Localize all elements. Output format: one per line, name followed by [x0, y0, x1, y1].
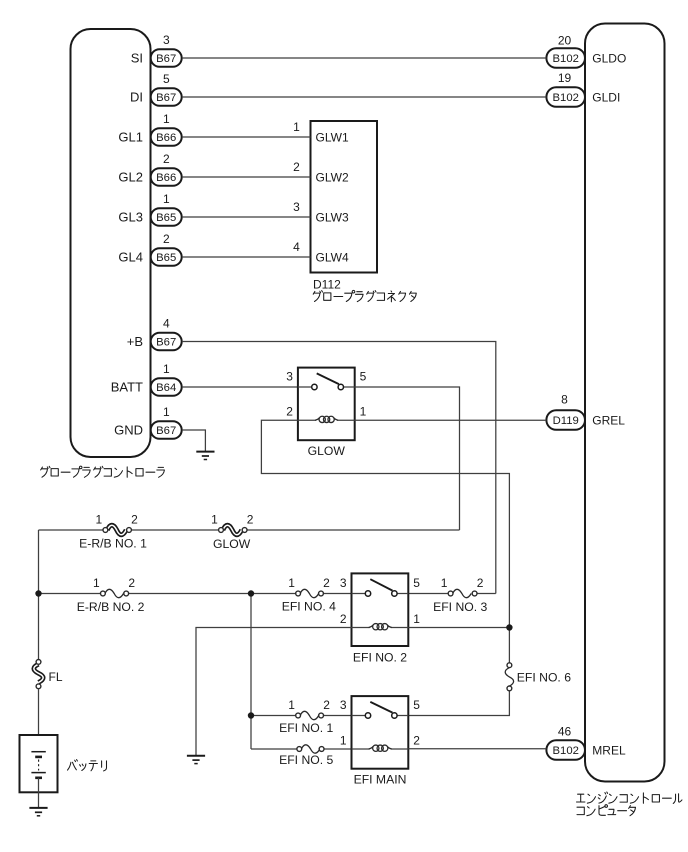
- pin label GND: [114, 422, 143, 437]
- relay EFI NO. 2 coil: [352, 624, 409, 630]
- relay EFI NO. 2 switch contacts: [352, 579, 409, 596]
- wire GL1 to D112: [182, 136, 311, 138]
- net label GLDO: [592, 51, 626, 65]
- svg-text:5: 5: [413, 698, 420, 712]
- pin label GL3: [118, 209, 143, 224]
- pin number 20 of GLDO: [558, 34, 572, 48]
- svg-text:GL2: GL2: [118, 169, 143, 184]
- fuse EFI NO.6 value label: [517, 670, 571, 684]
- svg-text:FL: FL: [49, 670, 63, 684]
- svg-text:B67: B67: [156, 425, 176, 437]
- fuse EFI NO. 5: [297, 745, 324, 753]
- wire battery feed vertical (x=38.5): [38, 530, 40, 660]
- pin label GL4: [118, 249, 143, 264]
- svg-text:B102: B102: [553, 745, 579, 757]
- pin number 46 of MREL: [558, 725, 572, 739]
- pin number 2 of D112: [293, 160, 300, 174]
- terminal oval B67 (+B): [151, 333, 182, 351]
- svg-text:MREL: MREL: [592, 743, 626, 757]
- pin number 1 of BATT: [163, 362, 170, 376]
- relay EFI NO. 2 pin 2: [340, 612, 347, 626]
- svg-text:1: 1: [163, 405, 170, 419]
- svg-text:1: 1: [211, 513, 218, 527]
- fuse E-R/B NO. 2: [101, 589, 129, 597]
- svg-text:2: 2: [323, 698, 330, 712]
- svg-text:1: 1: [93, 576, 100, 590]
- pin label +B: [127, 334, 143, 349]
- pin number 1 of GND: [163, 405, 170, 419]
- wire battery negative to ground: [38, 778, 40, 808]
- relay EFI MAIN coil: [352, 745, 409, 751]
- svg-text:1: 1: [441, 576, 448, 590]
- wire FL to battery: [38, 689, 40, 752]
- connector: glow plug controller body: [71, 29, 151, 457]
- svg-text:2: 2: [477, 576, 484, 590]
- svg-text:EFI NO. 2: EFI NO. 2: [353, 651, 407, 665]
- relay EFI NO. 2 pin 1: [413, 612, 420, 626]
- svg-text:2: 2: [340, 612, 347, 626]
- relay EFI MAIN pin 1: [340, 734, 347, 748]
- svg-text:GL4: GL4: [118, 249, 143, 264]
- svg-text:DI: DI: [130, 89, 143, 104]
- svg-text:B66: B66: [156, 132, 176, 144]
- svg-text:2: 2: [323, 576, 330, 590]
- svg-text:1: 1: [293, 120, 300, 134]
- svg-text:2: 2: [131, 513, 138, 527]
- fuse EFI NO. 4 pin 2: [323, 576, 330, 590]
- net label MREL: [592, 743, 626, 757]
- svg-text:B65: B65: [156, 212, 176, 224]
- svg-text:EFI MAIN: EFI MAIN: [354, 773, 407, 787]
- svg-text:20: 20: [558, 34, 572, 48]
- svg-text:D119: D119: [553, 415, 579, 427]
- svg-text:E-R/B NO. 1: E-R/B NO. 1: [79, 537, 147, 551]
- fuse E-R/B NO. 1 pin 2: [131, 513, 138, 527]
- pin number 1 of GL3: [163, 192, 170, 206]
- terminal oval B64 (BATT): [151, 378, 182, 396]
- wire GLOW relay pin 1 (coil) to GREL D119: [355, 419, 547, 421]
- fuse E-R/B NO. 2 value label: [77, 600, 145, 614]
- fuse EFI NO. 4: [296, 589, 324, 597]
- fuse EFI NO. 1 pin 1: [288, 698, 295, 712]
- wire E-R/B NO.2 / EFI NO.4 row to EFI NO.2 relay pin 3: [39, 593, 352, 595]
- svg-text:BATT: BATT: [111, 379, 143, 394]
- svg-text:1: 1: [340, 734, 347, 748]
- svg-text:3: 3: [293, 200, 300, 214]
- terminal oval B102 (MREL): [546, 740, 585, 760]
- relay EFI NO. 2 pin 3: [340, 576, 347, 590]
- terminal oval B102 (GLDO): [546, 48, 585, 68]
- net label GLDI: [592, 90, 620, 104]
- svg-text:5: 5: [163, 72, 170, 86]
- svg-text:2: 2: [413, 734, 420, 748]
- svg-text:GLOW: GLOW: [308, 444, 346, 458]
- svg-text:2: 2: [163, 232, 170, 246]
- svg-text:EFI NO. 1: EFI NO. 1: [279, 721, 333, 735]
- pin number 19 of GLDI: [558, 71, 572, 85]
- ground G1 (controller GND): [196, 452, 214, 460]
- relay GLOW coil: [298, 416, 355, 422]
- pin number 3 of D112: [293, 200, 300, 214]
- svg-text:1: 1: [288, 698, 295, 712]
- wire EFI NO.2 relay pin 5 through EFI NO.3 to +B feed: [408, 593, 496, 595]
- pin label GL2: [118, 169, 143, 184]
- pin number 2 of GL2: [163, 152, 170, 166]
- svg-text:46: 46: [558, 725, 572, 739]
- svg-text:GLW2: GLW2: [316, 171, 349, 185]
- svg-text:2: 2: [163, 152, 170, 166]
- fuse EFI NO. 1 value label: [279, 721, 333, 735]
- pin number 1 of D112: [293, 120, 300, 134]
- wire BATT to GLOW relay pin 3: [182, 386, 298, 388]
- svg-text:1: 1: [288, 576, 295, 590]
- fuse EFI NO. 1 pin 2: [323, 698, 330, 712]
- wire SI to GLDO: [182, 57, 546, 59]
- wire GLOW relay pin 2 (coil) to EFI NO.6 branch: [261, 420, 509, 663]
- wire GL4 to D112: [182, 256, 311, 258]
- fuse E-R/B NO. 2 pin 1: [93, 576, 100, 590]
- svg-text:B66: B66: [156, 172, 176, 184]
- svg-text:2: 2: [247, 513, 254, 527]
- svg-text:8: 8: [561, 393, 568, 407]
- fuse EFI NO. 4 pin 1: [288, 576, 295, 590]
- svg-text:GLW3: GLW3: [316, 211, 349, 225]
- relay GLOW pin 3: [286, 370, 293, 384]
- svg-text:B67: B67: [156, 53, 176, 65]
- wire GL3 to D112: [182, 216, 311, 218]
- svg-text:EFI NO. 5: EFI NO. 5: [279, 753, 333, 767]
- relay EFI MAIN box: [352, 696, 409, 769]
- fuse GLOW value label: [213, 537, 251, 551]
- pin number 4 of D112: [293, 240, 300, 254]
- junction J1 battery feed/E-R/B NO.2: [35, 590, 41, 596]
- fuse EFI NO. 3: [448, 589, 477, 597]
- svg-text:B102: B102: [553, 53, 579, 65]
- wire EFI NO.5 row: [251, 748, 352, 750]
- fuse EFI NO. 4 value label: [282, 600, 336, 614]
- svg-text:+B: +B: [127, 334, 143, 349]
- svg-text:GLDO: GLDO: [592, 51, 626, 65]
- svg-text:E-R/B NO. 2: E-R/B NO. 2: [77, 600, 145, 614]
- wire E-R/B NO.1 / GLOW fuse row: [39, 529, 460, 531]
- label D112: [313, 278, 341, 292]
- relay GLOW name label: [308, 444, 346, 458]
- terminal oval B102 (GLDI): [546, 87, 585, 107]
- wire GL2 to D112: [182, 176, 311, 178]
- fuse FL label: [49, 670, 63, 684]
- fuse GLOW: [219, 525, 247, 535]
- wire branch down at x=251: [250, 594, 252, 750]
- relay EFI NO. 2 box: [352, 573, 409, 646]
- ground G3 (battery): [29, 808, 47, 816]
- label katakana battery: [68, 760, 107, 771]
- wire EFI MAIN pin 2 (coil) to MREL B102: [408, 748, 546, 750]
- terminal oval B66 (GL1): [151, 128, 182, 146]
- svg-text:GLOW: GLOW: [213, 537, 251, 551]
- relay EFI MAIN switch contacts: [352, 702, 409, 718]
- svg-text:GL3: GL3: [118, 209, 143, 224]
- relay EFI MAIN pin 3: [340, 698, 347, 712]
- label katakana glow plug controller: [41, 466, 165, 477]
- relay GLOW pin 2: [286, 405, 293, 419]
- pin number 5 of DI: [163, 72, 170, 86]
- pin name GLW3: [316, 211, 349, 225]
- terminal oval B67 (SI): [151, 49, 182, 67]
- fuse E-R/B NO. 1 pin 1: [96, 513, 103, 527]
- relay EFI NO. 2 name label: [353, 651, 407, 665]
- svg-text:B67: B67: [156, 92, 176, 104]
- wire GLOW relay pin 5 to GLOW fuse feed (x=459.5): [355, 387, 460, 530]
- fuse EFI NO. 1: [296, 711, 324, 719]
- fuse GLOW pin 2: [247, 513, 254, 527]
- pin number 8 of GREL: [561, 393, 568, 407]
- battery box: [20, 735, 58, 792]
- wire +B to EFI NO.3 (down at x=495.8): [182, 342, 496, 594]
- terminal oval D119 (GREL): [546, 410, 585, 430]
- svg-text:1: 1: [360, 405, 367, 419]
- fuse EFI NO. 3 pin 1: [441, 576, 448, 590]
- svg-text:GL1: GL1: [118, 129, 143, 144]
- pin label SI: [131, 50, 143, 65]
- svg-text:1: 1: [163, 192, 170, 206]
- relay GLOW box: [298, 368, 355, 441]
- relay GLOW pin 5: [360, 370, 367, 384]
- svg-text:2: 2: [293, 160, 300, 174]
- svg-text:B64: B64: [156, 382, 176, 394]
- wire EFI NO.2 coil pin 2 to ground: [196, 628, 352, 756]
- wire EFI NO.2 coil pin 1 to EFI NO.6 node: [408, 627, 509, 629]
- junction J3 EFI NO.6 top: [506, 624, 512, 630]
- svg-text:EFI NO. 4: EFI NO. 4: [282, 600, 336, 614]
- pin label GL1: [118, 129, 143, 144]
- relay EFI NO. 2 pin 5: [413, 576, 420, 590]
- svg-text:GND: GND: [114, 422, 143, 437]
- terminal oval B65 (GL3): [151, 208, 182, 226]
- relay EFI MAIN pin 5: [413, 698, 420, 712]
- pin label BATT: [111, 379, 143, 394]
- svg-text:3: 3: [340, 698, 347, 712]
- fuse E-R/B NO. 2 pin 2: [128, 576, 135, 590]
- svg-text:19: 19: [558, 71, 572, 85]
- svg-text:1: 1: [96, 513, 103, 527]
- svg-text:GREL: GREL: [592, 413, 625, 427]
- wire DI to GLDI: [182, 96, 546, 98]
- relay GLOW switch contacts: [298, 373, 355, 389]
- label katakana computer (line 2): [577, 805, 636, 816]
- fuse E-R/B NO. 1: [103, 525, 131, 535]
- svg-text:2: 2: [128, 576, 135, 590]
- wire EFI NO.6 to EFI MAIN pin 5: [408, 691, 509, 716]
- pin name GLW4: [316, 251, 349, 265]
- connector: engine control computer body: [585, 24, 665, 782]
- fuse EFI NO. 5 value label: [279, 753, 333, 767]
- battery cells: [31, 752, 45, 778]
- pin number 3 of SI: [163, 33, 170, 47]
- terminal oval B67 (DI): [151, 88, 182, 106]
- svg-text:3: 3: [163, 33, 170, 47]
- relay EFI MAIN name label: [354, 773, 407, 787]
- svg-text:1: 1: [163, 112, 170, 126]
- svg-text:SI: SI: [131, 50, 143, 65]
- relay GLOW pin 1: [360, 405, 367, 419]
- svg-text:GLW4: GLW4: [316, 251, 349, 265]
- svg-text:3: 3: [286, 370, 293, 384]
- svg-text:GLDI: GLDI: [592, 90, 620, 104]
- svg-text:B65: B65: [156, 252, 176, 264]
- wire EFI NO.1 row: [251, 715, 352, 717]
- svg-text:B102: B102: [553, 92, 579, 104]
- terminal oval B66 (GL2): [151, 168, 182, 186]
- pin number 2 of GL4: [163, 232, 170, 246]
- pin label DI: [130, 89, 143, 104]
- pin name GLW2: [316, 171, 349, 185]
- svg-text:5: 5: [413, 576, 420, 590]
- svg-text:1: 1: [413, 612, 420, 626]
- ground G2 (EFI NO.2 coil): [187, 756, 205, 764]
- fuse GLOW pin 1: [211, 513, 218, 527]
- connector D112 glow plug connector box: [311, 121, 378, 273]
- svg-text:5: 5: [360, 370, 367, 384]
- svg-text:D112: D112: [313, 278, 341, 292]
- fuse EFI NO. 3 value label: [433, 600, 487, 614]
- net label GREL: [592, 413, 625, 427]
- wire GND to chassis ground: [182, 430, 205, 452]
- terminal oval B67 (GND): [151, 421, 182, 439]
- svg-text:GLW1: GLW1: [316, 131, 349, 145]
- terminal oval B65 (GL4): [151, 248, 182, 266]
- svg-text:EFI NO. 6: EFI NO. 6: [517, 670, 571, 684]
- fuse EFI NO. 6 (vertical): [505, 663, 513, 691]
- svg-text:2: 2: [286, 405, 293, 419]
- svg-text:1: 1: [163, 362, 170, 376]
- label katakana glow plug connector: [313, 290, 416, 301]
- pin name GLW1: [316, 131, 349, 145]
- svg-text:4: 4: [163, 316, 170, 330]
- junction J4 EFI NO.1 tap: [248, 712, 254, 718]
- fuse E-R/B NO. 1 value label: [79, 537, 147, 551]
- pin number 1 of GL1: [163, 112, 170, 126]
- pin number 4 of +B: [163, 316, 170, 330]
- relay EFI MAIN pin 2: [413, 734, 420, 748]
- svg-text:3: 3: [340, 576, 347, 590]
- fuse FL fusible link (vertical): [34, 660, 43, 689]
- svg-text:B67: B67: [156, 337, 176, 349]
- svg-text:EFI NO. 3: EFI NO. 3: [433, 600, 487, 614]
- svg-text:4: 4: [293, 240, 300, 254]
- junction J2 EFI NO.1/5 branch: [248, 590, 254, 596]
- fuse EFI NO. 3 pin 2: [477, 576, 484, 590]
- label katakana engine control (line 1): [577, 792, 682, 803]
